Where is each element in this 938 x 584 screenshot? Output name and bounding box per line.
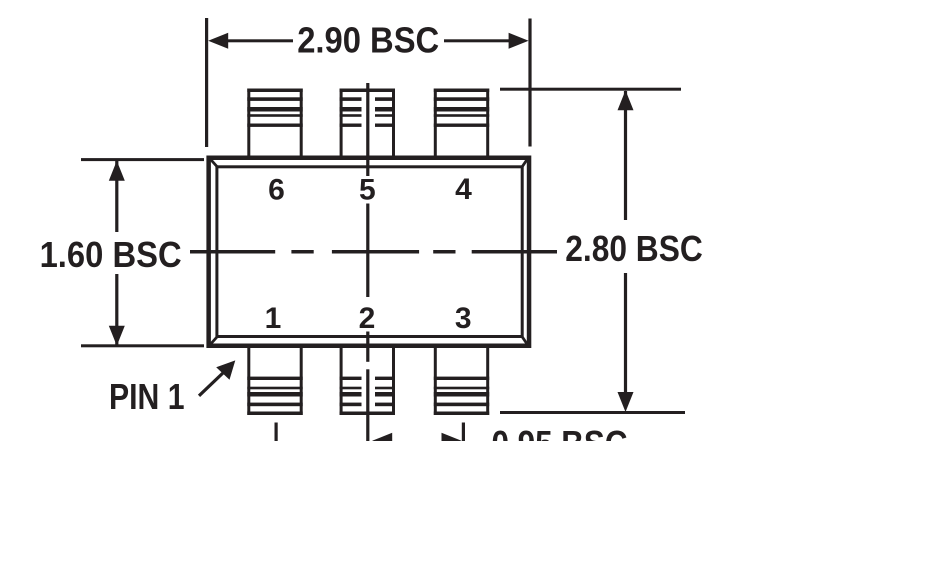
dimension 1.60 BSC down arrowhead: [109, 326, 125, 346]
dimension 2.90 BSC left arrowhead: [208, 33, 228, 49]
svg-text:6: 6: [268, 173, 285, 206]
body chamfer top-left: [211, 159, 219, 168]
svg-text:2.80 BSC: 2.80 BSC: [565, 228, 703, 269]
svg-text:4: 4: [455, 173, 472, 206]
dimension 2.80 BSC down arrowhead: [618, 392, 634, 412]
dimension 0.95 BSC left arrowhead (clipped): [372, 433, 392, 449]
vertical centerline segment inside body: [366, 204, 369, 298]
dimension 2.80 BSC line lower segment: [624, 273, 627, 393]
svg-text:1: 1: [265, 302, 282, 335]
svg-text:1.60 BSC: 1.60 BSC: [40, 234, 182, 275]
svg-text:3: 3: [455, 302, 472, 335]
dimension 1.60 BSC line lower segment: [115, 274, 118, 345]
svg-text:PIN 1: PIN 1: [109, 376, 185, 417]
svg-text:2.90 BSC: 2.90 BSC: [297, 20, 439, 61]
dimension 2.90 BSC line left segment: [227, 39, 293, 42]
dimension 1.60 BSC line upper segment: [115, 161, 118, 232]
dimension 0.95 BSC pin-1 extension line: [275, 423, 278, 442]
dimension 0.95 BSC pin-3 extension line: [462, 423, 465, 442]
svg-text:5: 5: [359, 173, 376, 206]
dimension 2.90 BSC left extension line: [205, 18, 208, 147]
PIN 1 pointer arrowhead: [216, 360, 235, 379]
horizontal dashed centerline: [190, 250, 557, 254]
dimension 2.90 BSC right extension line: [528, 19, 531, 147]
package body inner outline: [217, 167, 522, 337]
lead pin 5 (top middle): [340, 89, 395, 156]
dimension 2.80 BSC top extension line: [500, 88, 681, 91]
svg-text:2: 2: [359, 302, 376, 335]
vertical centerline segment below text 2: [366, 332, 369, 362]
lead pin 1 (bottom left): [247, 348, 302, 415]
dimension 2.90 BSC right arrowhead: [509, 33, 529, 49]
PIN 1 pointer line: [199, 372, 225, 396]
lead pin 4 (top right): [434, 89, 489, 156]
lead pin 3 (bottom right): [434, 348, 489, 415]
vertical centerline segment through pin 2 to bottom: [366, 369, 369, 441]
svg-text:0.95 BSC: 0.95 BSC: [492, 423, 628, 464]
dimension 1.60 BSC bottom extension line: [81, 344, 204, 347]
body chamfer bottom-right: [521, 336, 527, 345]
dimension 1.60 BSC up arrowhead: [109, 161, 125, 181]
dimension 2.80 BSC line upper segment: [624, 91, 627, 220]
vertical centerline segment above pin 5: [366, 83, 369, 176]
body chamfer top-right: [521, 159, 527, 168]
body chamfer bottom-left: [211, 336, 219, 345]
lead pin 2 (bottom middle): [340, 348, 395, 415]
dimension 0.95 BSC right arrowhead (clipped): [442, 433, 462, 449]
lead pin 6 (top left): [247, 89, 302, 156]
dimension 2.80 BSC bottom extension line: [500, 411, 685, 414]
dimension 1.60 BSC top extension line: [81, 158, 204, 161]
dimension 2.90 BSC line right segment: [444, 39, 509, 42]
package body outer outline: [209, 158, 529, 346]
dimension 2.80 BSC up arrowhead: [618, 90, 634, 110]
